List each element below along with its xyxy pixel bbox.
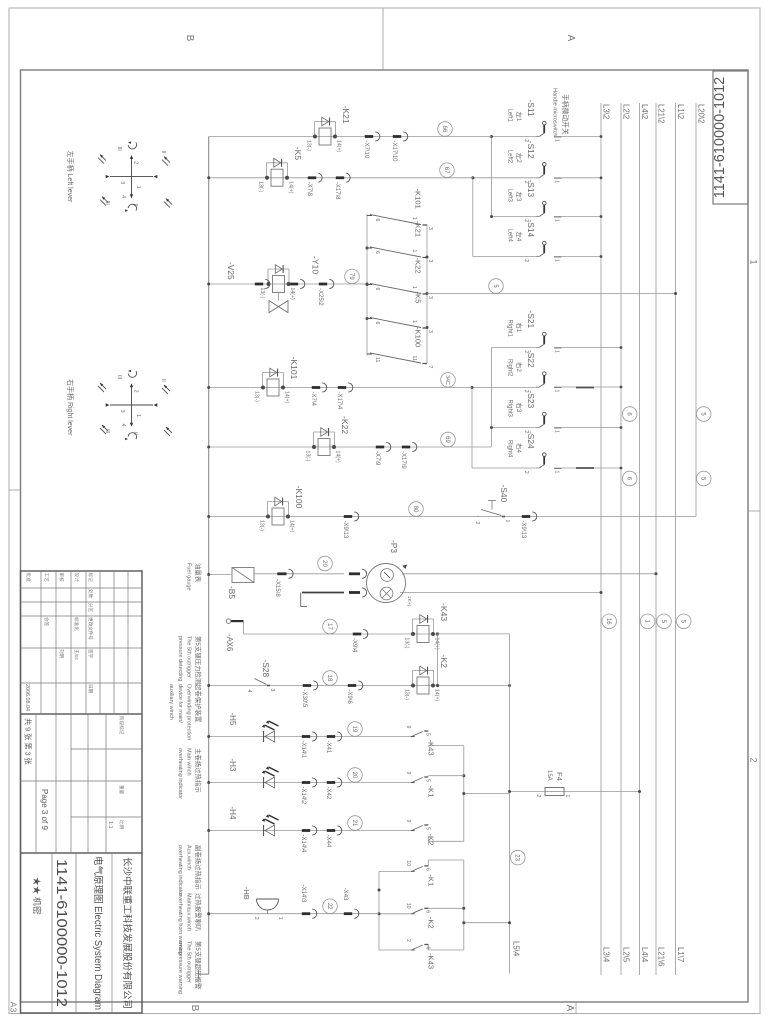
- svg-text:II: II: [132, 204, 138, 207]
- connector pin X7\4: [322, 383, 327, 392]
- svg-text:1141-610000-1012: 1141-610000-1012: [712, 77, 728, 198]
- svg-text:L3\2: L3\2: [602, 104, 611, 119]
- svg-text:79: 79: [348, 273, 354, 280]
- junction on return rail: [207, 135, 209, 137]
- branch wire K100: [209, 516, 696, 518]
- svg-text:比例: 比例: [118, 820, 125, 830]
- tie wire coil tops: [437, 634, 439, 686]
- wire number 5: [489, 279, 504, 294]
- wire S24 to K101 branch: [471, 388, 473, 469]
- zone divider right edge: [575, 1002, 577, 1014]
- horn branch wire: [209, 913, 379, 915]
- svg-text:11: 11: [374, 357, 380, 362]
- relay coil K21: [315, 121, 336, 123]
- svg-text:The 5th outrigger: The 5th outrigger: [185, 636, 191, 678]
- svg-text:-K5: -K5: [293, 147, 303, 161]
- svg-text:6: 6: [424, 868, 430, 871]
- box B top wire: [463, 860, 465, 950]
- connector pin X7\10: [375, 132, 380, 141]
- svg-text:右2: 右2: [515, 362, 524, 372]
- connector pin X43: [354, 909, 359, 918]
- wire L3 to switch S12: [554, 177, 601, 179]
- box A top wire: [463, 746, 465, 842]
- connector pin -X42: [337, 778, 342, 787]
- svg-text:电气原理图 Electric System Diagram: 电气原理图 Electric System Diagram: [92, 856, 105, 1010]
- svg-text:-H4: -H4: [228, 807, 237, 820]
- svg-text:10: 10: [405, 860, 411, 866]
- svg-text:66: 66: [441, 126, 447, 133]
- svg-text:13(-): 13(-): [258, 181, 264, 192]
- contact K101: [423, 224, 428, 226]
- svg-text:34C: 34C: [444, 375, 450, 385]
- connector pin X30\3: [354, 512, 359, 521]
- svg-text:B: B: [189, 1005, 200, 1012]
- connector pin X15\8: [289, 569, 294, 578]
- connector pin X7\9: [386, 442, 391, 451]
- svg-text:overpressure warning: overpressure warning: [177, 941, 183, 994]
- svg-text:-K43: -K43: [426, 953, 435, 969]
- svg-text:L2\5: L2\5: [622, 947, 631, 963]
- svg-text:-K1: -K1: [426, 786, 435, 798]
- branch wire Y10: [209, 283, 367, 285]
- svg-text:1K+): 1K+): [406, 596, 412, 607]
- svg-text:Main/aux.winch: Main/aux.winch: [185, 893, 191, 931]
- svg-text:★★ 机密: ★★ 机密: [32, 877, 43, 915]
- indicator LED -H4: [265, 825, 275, 836]
- svg-text:标准化: 标准化: [73, 617, 80, 631]
- svg-text:13(-): 13(-): [259, 520, 265, 531]
- svg-text:-K43: -K43: [439, 603, 449, 621]
- svg-text:11: 11: [411, 356, 417, 361]
- svg-text:L4\4: L4\4: [640, 947, 649, 963]
- svg-text:L20\2: L20\2: [697, 104, 706, 124]
- box A left leg: [428, 745, 464, 747]
- svg-text:手柄微动开关: 手柄微动开关: [561, 94, 570, 135]
- box A right leg: [428, 840, 464, 842]
- bus wire S21/S23 to K22 branch: [490, 348, 492, 448]
- svg-text:-K21: -K21: [414, 221, 423, 237]
- horn feed wire: [379, 870, 411, 872]
- svg-text:L1\7: L1\7: [676, 947, 685, 962]
- svg-text:-X17\4: -X17\4: [336, 392, 342, 410]
- svg-text:pressure detecting: pressure detecting: [177, 636, 183, 681]
- svg-text:-K21: -K21: [341, 106, 351, 124]
- wire number 34C: [441, 373, 456, 388]
- svg-text:长沙中联重工科技发展股份有限公司: 长沙中联重工科技发展股份有限公司: [122, 857, 133, 1009]
- branch wire K21: [209, 136, 492, 138]
- connector pin X9\4: [363, 629, 368, 638]
- svg-text:-K2: -K2: [426, 834, 435, 846]
- svg-text:III: III: [116, 147, 122, 151]
- rail circles at x=414: [622, 407, 637, 422]
- svg-text:-X7\4: -X7\4: [310, 392, 316, 407]
- svg-text:-S23: -S23: [526, 391, 536, 409]
- svg-text:1: 1: [277, 917, 283, 920]
- rail wire-number circles column: [602, 614, 617, 629]
- svg-text:L2\2: L2\2: [622, 104, 631, 119]
- svg-text:Page 3 of 9: Page 3 of 9: [40, 789, 49, 830]
- svg-text:1:1: 1:1: [107, 821, 113, 829]
- svg-text:1: 1: [749, 259, 759, 264]
- svg-text:处数: 处数: [87, 589, 94, 599]
- svg-text:3: 3: [427, 260, 433, 263]
- svg-text:1: 1: [554, 219, 560, 222]
- svg-text:II: II: [160, 379, 166, 382]
- svg-text:-X25\2: -X25\2: [317, 288, 323, 306]
- svg-text:9: 9: [405, 772, 411, 775]
- svg-text:1: 1: [411, 217, 417, 220]
- bold harness segment on S24 drop: [576, 467, 594, 469]
- wire AX6 jog: [243, 621, 245, 634]
- drawing number box top-left: [713, 71, 748, 204]
- rail circles at x=478.5: [622, 471, 637, 486]
- wire B5 to return rail: [209, 574, 232, 576]
- svg-text:-K2: -K2: [426, 917, 435, 929]
- svg-text:5: 5: [424, 779, 430, 782]
- pin below P3 terminal 2: [362, 588, 367, 597]
- svg-text:2006.08.04: 2006.08.04: [24, 684, 30, 711]
- fuel gauge P3: [367, 564, 406, 603]
- title block: [21, 571, 143, 1013]
- box B mid leg: [428, 907, 464, 909]
- svg-text:3: 3: [427, 296, 433, 299]
- svg-text:-K22: -K22: [414, 258, 423, 274]
- connector pin -X41: [337, 732, 342, 741]
- wire number 19: [348, 722, 363, 737]
- svg-text:-X7\9: -X7\9: [374, 451, 380, 466]
- wire number 22: [323, 899, 338, 914]
- svg-text:L1\2: L1\2: [676, 104, 685, 119]
- svg-text:-K101: -K101: [414, 189, 423, 209]
- svg-text:overheating indicator: overheating indicator: [177, 748, 183, 799]
- svg-text:1: 1: [554, 430, 560, 433]
- connector pin -X14\1: [312, 732, 317, 741]
- wire S24 drop: [472, 467, 540, 469]
- svg-text:1: 1: [135, 186, 141, 189]
- connector pin X7\8: [318, 173, 322, 182]
- wire S13 drop to bus: [492, 216, 540, 218]
- svg-text:过热报警喇叭: 过热报警喇叭: [194, 893, 203, 932]
- svg-text:Right2: Right2: [507, 359, 513, 377]
- indicator LED -H5: [265, 731, 275, 742]
- contact K1 for horn: [424, 865, 428, 867]
- wire K2 top to L5: [438, 685, 510, 687]
- svg-text:14(+): 14(+): [336, 140, 342, 153]
- svg-text:14(+): 14(+): [434, 689, 440, 702]
- svg-text:16: 16: [605, 618, 611, 625]
- terminal AX6: [226, 619, 231, 624]
- contact K100: [423, 363, 428, 365]
- bold harness segment on S22 drop: [576, 387, 594, 389]
- branch wire S28-K2: [209, 685, 438, 687]
- svg-text:-K2: -K2: [439, 655, 449, 669]
- svg-text:2: 2: [523, 471, 529, 474]
- svg-text:-X9\6: -X9\6: [346, 690, 352, 705]
- svg-text:-X7\10: -X7\10: [363, 141, 369, 159]
- svg-text:5: 5: [424, 827, 430, 830]
- svg-text:设计: 设计: [73, 573, 80, 583]
- svg-text:B: B: [184, 35, 195, 42]
- svg-text:Main winch: Main winch: [185, 748, 191, 776]
- microswitch S23 Right3: [554, 427, 562, 429]
- svg-text:-K101: -K101: [289, 357, 299, 380]
- svg-text:L3\4: L3\4: [602, 947, 611, 963]
- wire L3 to switch S11: [554, 136, 601, 138]
- svg-text:-P3: -P3: [389, 540, 399, 553]
- svg-text:13(-): 13(-): [404, 689, 410, 700]
- svg-text:A: A: [565, 35, 576, 42]
- svg-text:2: 2: [405, 939, 411, 942]
- microswitch S22 Right2: [554, 387, 562, 389]
- bus rail L21: [655, 103, 657, 975]
- branch wire K22: [209, 446, 492, 448]
- wire L2 to switch S23: [554, 427, 621, 429]
- svg-text:Right1: Right1: [507, 320, 513, 338]
- connector pin -X44: [337, 826, 342, 835]
- branch wire K5: [209, 177, 473, 179]
- svg-text:-X44: -X44: [325, 835, 331, 848]
- svg-text:1: 1: [554, 390, 560, 393]
- svg-text:1: 1: [554, 471, 560, 474]
- right lever diagram: [110, 404, 153, 406]
- pin below P3 terminal 1: [362, 569, 367, 578]
- svg-text:1: 1: [135, 414, 141, 417]
- svg-text:左3: 左3: [515, 192, 524, 202]
- wire number 20: [348, 768, 363, 783]
- contact K43 for horn: [424, 944, 428, 946]
- connector pin X9\6: [358, 681, 363, 690]
- svg-text:Left2: Left2: [507, 150, 513, 164]
- fuse F4 15A: [545, 788, 564, 796]
- svg-text:-H5: -H5: [228, 713, 237, 726]
- wire number 67: [440, 163, 455, 178]
- connector pin below coil Y10: [265, 279, 270, 288]
- svg-text:22: 22: [326, 903, 332, 910]
- svg-text:-X14\1: -X14\1: [300, 741, 306, 759]
- relay coil K100: [268, 501, 289, 503]
- svg-text:80: 80: [412, 506, 418, 513]
- svg-text:-X17\8: -X17\8: [334, 182, 340, 200]
- svg-text:-K5: -K5: [414, 292, 423, 304]
- zone divider top edge: [748, 510, 760, 512]
- wire number 20: [318, 556, 333, 571]
- wire S12 drop = K5 branch top: [473, 177, 540, 179]
- svg-text:工艺: 工艺: [44, 573, 49, 583]
- relay coil K5: [267, 162, 288, 164]
- svg-text:-H3: -H3: [228, 759, 237, 772]
- horn HB: [257, 898, 279, 900]
- svg-text:-K100: -K100: [414, 327, 423, 347]
- svg-text:Left1: Left1: [507, 109, 513, 123]
- svg-text:-X41: -X41: [325, 741, 331, 754]
- svg-text:分区: 分区: [87, 603, 94, 613]
- svg-text:1: 1: [411, 250, 417, 253]
- svg-text:-X14\2: -X14\2: [300, 787, 306, 805]
- wire number 17: [323, 619, 338, 634]
- bus rail L1: [675, 103, 677, 975]
- svg-text:5: 5: [424, 733, 430, 736]
- wire L3 to switch S13: [554, 216, 601, 218]
- microswitch S12 Left2: [554, 177, 562, 179]
- bus rail L2: [620, 103, 622, 975]
- svg-text:2: 2: [253, 917, 259, 920]
- wire S22 drop = K101 branch top: [472, 387, 540, 389]
- svg-text:III: III: [104, 429, 110, 433]
- wire S23 drop to bus: [491, 427, 539, 429]
- svg-text:左2: 左2: [515, 153, 524, 163]
- svg-text:-X7\8: -X7\8: [306, 182, 312, 197]
- wire S14 to K5 branch: [472, 178, 474, 257]
- svg-text:1: 1: [554, 350, 560, 353]
- svg-text:14(+): 14(+): [289, 288, 295, 301]
- zone divider left edge: [382, 8, 384, 70]
- svg-text:-S40: -S40: [499, 485, 509, 503]
- svg-text:20: 20: [351, 772, 357, 779]
- bus rail L3: [600, 103, 602, 975]
- svg-text:6: 6: [374, 288, 380, 291]
- junction K43 top: [436, 632, 439, 635]
- svg-text:-X14\4: -X14\4: [300, 835, 306, 853]
- svg-text:15A: 15A: [546, 770, 552, 781]
- microswitch S13 Left3: [554, 216, 562, 218]
- svg-text:-S28: -S28: [261, 660, 271, 678]
- svg-text:1: 1: [554, 259, 560, 262]
- switch S28: [267, 685, 270, 687]
- contact K43 for lamp H5: [424, 730, 428, 732]
- svg-text:Right3: Right3: [507, 400, 513, 418]
- wire number 69: [441, 432, 456, 447]
- microswitch S24 Right4: [554, 468, 562, 470]
- svg-text:1: 1: [411, 286, 417, 289]
- bus rail L4: [639, 103, 641, 975]
- svg-text:3: 3: [119, 410, 125, 413]
- svg-text:20: 20: [321, 560, 327, 567]
- svg-text:7: 7: [427, 366, 433, 369]
- relay coil K22: [314, 431, 335, 433]
- svg-text:device for main/: device for main/: [177, 684, 183, 723]
- svg-text:13(-): 13(-): [254, 391, 260, 402]
- svg-text:67: 67: [443, 167, 449, 174]
- svg-text:-S22: -S22: [526, 350, 536, 368]
- svg-text:19: 19: [351, 726, 357, 733]
- box B right leg: [428, 949, 464, 951]
- svg-text:右1: 右1: [515, 323, 524, 333]
- svg-text:-B5: -B5: [227, 586, 237, 599]
- wire number 66: [438, 122, 453, 137]
- svg-text:-K1: -K1: [426, 874, 435, 886]
- solenoid coil Y10 with suppression diode V25: [268, 268, 289, 270]
- svg-text:III: III: [116, 375, 122, 379]
- svg-text:1141-6100000-1012: 1141-6100000-1012: [53, 859, 69, 1007]
- wire L2 to switch S24: [554, 467, 621, 469]
- svg-text:1: 1: [554, 180, 560, 183]
- svg-text:L5\4: L5\4: [512, 941, 521, 957]
- svg-text:21: 21: [351, 820, 357, 827]
- svg-text:-X9\13: -X9\13: [520, 521, 526, 539]
- box B left leg: [428, 859, 464, 861]
- svg-text:-S24: -S24: [526, 431, 536, 449]
- wire number 23: [511, 850, 526, 865]
- branch wire K43: [262, 633, 438, 635]
- svg-text:-S14: -S14: [526, 220, 536, 238]
- svg-text:3: 3: [427, 330, 433, 333]
- indicator LED -H3: [265, 777, 275, 788]
- microswitch S11 Left1: [554, 136, 562, 138]
- svg-text:-X43: -X43: [342, 888, 348, 901]
- svg-text:14(+): 14(+): [289, 520, 295, 533]
- svg-text:主卷扬过热指示: 主卷扬过热指示: [194, 748, 203, 793]
- contact K21: [423, 257, 428, 259]
- svg-text:-K100: -K100: [294, 486, 304, 509]
- svg-text:左4: 左4: [515, 232, 524, 242]
- connector pin -X14\2: [312, 778, 317, 787]
- chain wire B: [426, 225, 428, 364]
- connector pin above coil Y10: [300, 279, 305, 288]
- box A mid leg: [428, 775, 464, 777]
- svg-text:Fuel gauge: Fuel gauge: [185, 563, 191, 591]
- pressure switch S40: [502, 516, 505, 518]
- lamp branch wire -H5: [209, 736, 411, 738]
- relay coil K43: [413, 618, 434, 620]
- svg-text:-HB: -HB: [242, 887, 251, 900]
- lamp branch wire -H4: [209, 830, 411, 832]
- svg-text:2: 2: [133, 390, 139, 393]
- connector pin X17\10: [403, 132, 408, 141]
- svg-text:更改文件号: 更改文件号: [87, 617, 94, 640]
- contact K1 for lamp H3: [424, 776, 428, 778]
- wire S14 drop: [473, 256, 540, 258]
- svg-text:A3: A3: [9, 1002, 19, 1013]
- svg-text:L4\2: L4\2: [640, 104, 649, 119]
- zone divider bottom edge: [9, 489, 21, 491]
- svg-text:超卷保护装置: 超卷保护装置: [194, 684, 203, 723]
- svg-text:刘明: 刘明: [58, 649, 65, 659]
- svg-text:2: 2: [535, 795, 541, 798]
- branch wire P3 to B5: [254, 573, 344, 575]
- svg-text:4: 4: [120, 424, 126, 427]
- svg-text:Left4: Left4: [507, 229, 513, 243]
- connector pin X17\4: [348, 383, 353, 392]
- bus rail L20 (ends at K100 branch): [695, 103, 697, 517]
- wire P3 to L3: [400, 592, 601, 594]
- svg-text:L21\6: L21\6: [657, 947, 666, 967]
- fuse branch from L4: [564, 791, 640, 793]
- svg-text:1: 1: [554, 139, 560, 142]
- svg-text:13(-): 13(-): [306, 140, 312, 151]
- chain wire A: [366, 214, 368, 356]
- connector pin X9\13: [532, 512, 537, 521]
- svg-text:Handle microswitch: Handle microswitch: [552, 88, 558, 137]
- wire L3 to switch S14: [554, 256, 601, 258]
- svg-text:-Y10: -Y10: [311, 256, 321, 274]
- svg-text:9: 9: [405, 726, 411, 729]
- svg-text:1: 1: [504, 520, 510, 523]
- svg-text:-X9\13: -X9\13: [342, 521, 348, 539]
- svg-text:2: 2: [523, 259, 529, 262]
- svg-text:王/02: 王/02: [74, 649, 79, 660]
- svg-text:2: 2: [474, 522, 480, 525]
- contact K22: [423, 293, 428, 295]
- svg-text:Right4: Right4: [507, 440, 513, 458]
- svg-text:-S21: -S21: [526, 311, 536, 329]
- svg-text:III: III: [104, 201, 110, 205]
- svg-text:审核: 审核: [58, 573, 65, 583]
- svg-text:第5支腿超压报警: 第5支腿超压报警: [194, 941, 203, 990]
- wire S21 drop to bus: [491, 347, 539, 349]
- svg-text:The 5th outrigger: The 5th outrigger: [185, 941, 191, 983]
- wire S11 drop to bus: [492, 136, 540, 138]
- svg-text:6: 6: [374, 251, 380, 254]
